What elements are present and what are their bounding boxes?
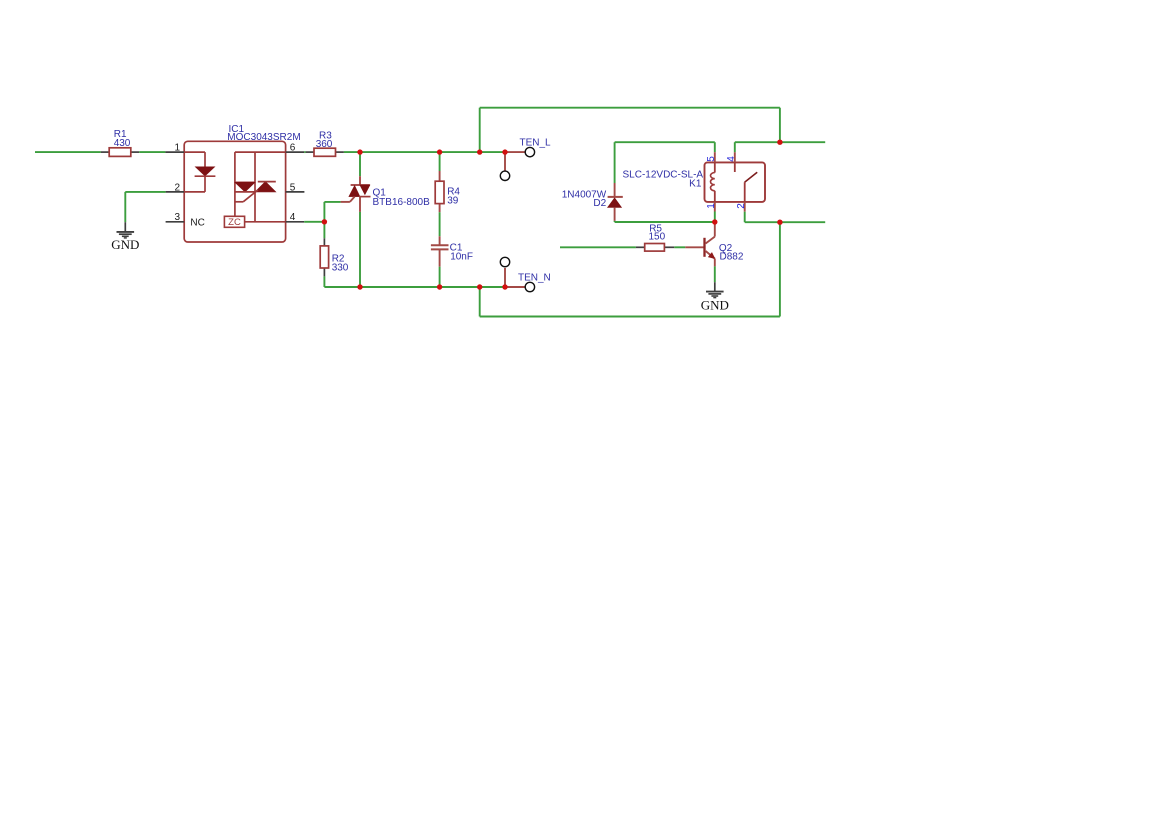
svg-text:K1: K1	[689, 178, 702, 189]
relay pin 1	[706, 202, 717, 212]
net TEN_L terminal	[500, 138, 551, 181]
wire: R4 to C1	[439, 212, 441, 236]
node junction Q2 collector	[712, 219, 717, 224]
node junction bottom rail riser	[477, 284, 482, 289]
relay pin 2	[736, 202, 747, 212]
ground GND1	[111, 222, 139, 252]
wire: IC1 pin 6 to R3	[304, 151, 305, 153]
IC1 pin 2	[166, 182, 185, 193]
label C1 10nF	[450, 243, 473, 263]
svg-text:2: 2	[174, 182, 180, 193]
resistor R2	[320, 238, 328, 276]
IC1 internal LED diode	[184, 152, 215, 192]
wire: Q1 to bottom rail	[359, 212, 361, 287]
wire: relay pin1 to collector junction	[714, 212, 716, 223]
svg-text:330: 330	[332, 262, 349, 273]
wire: top rail R3 to TEN_L	[344, 151, 505, 153]
IC1 pin 6	[286, 143, 305, 154]
svg-text:4: 4	[726, 156, 737, 162]
diode D2	[608, 183, 623, 221]
wire: Q2 emitter to ground	[714, 266, 716, 282]
node junction at R4 top	[437, 149, 442, 154]
triac Q1	[341, 176, 371, 212]
IC1 pin 1	[165, 143, 184, 154]
label Q1 BTB16-800B	[373, 188, 431, 208]
svg-text:TEN_L: TEN_L	[520, 138, 552, 149]
wire: C1 to bottom rail	[439, 267, 441, 287]
relay K1 coil	[710, 162, 714, 202]
wire: relay pin4 to top-right net	[735, 142, 825, 152]
svg-text:6: 6	[290, 143, 296, 154]
transistor Q2	[685, 224, 715, 267]
relay K1 body	[705, 162, 766, 202]
svg-text:GND: GND	[701, 297, 729, 312]
label Q2 D882	[719, 243, 744, 263]
svg-text:2: 2	[736, 203, 747, 209]
node junction C1 bottom	[437, 284, 442, 289]
label D2 1N4007W	[562, 189, 607, 209]
IC1 internal photo-triac	[235, 152, 286, 222]
node junction at TEN_L stub	[502, 149, 507, 154]
svg-text:TEN_N: TEN_N	[518, 273, 551, 284]
node junction bottom-right	[777, 220, 782, 225]
svg-text:430: 430	[114, 138, 131, 149]
wire: R5 to Q2 base	[674, 246, 685, 248]
node junction TEN_N stub	[502, 284, 507, 289]
svg-text:39: 39	[447, 195, 459, 206]
label IC1 MOC3043SR2M	[227, 124, 300, 143]
svg-text:4: 4	[290, 212, 296, 223]
wire: IC1 pin 4 to gate junction	[304, 221, 324, 223]
svg-text:150: 150	[649, 232, 666, 243]
svg-text:ZC: ZC	[228, 217, 241, 228]
wire: base drive input	[560, 246, 636, 248]
wire: D2 top / relay pin5 net	[615, 142, 715, 183]
svg-text:5: 5	[290, 182, 296, 193]
svg-text:D882: D882	[720, 251, 744, 262]
label R1 430	[114, 129, 131, 149]
svg-text:D2: D2	[593, 198, 606, 209]
label K1 SLC-12VDC-SL-A	[623, 169, 704, 189]
svg-text:GND: GND	[111, 237, 139, 252]
wire: IC1 pin 2 to ground	[125, 192, 165, 222]
optocoupler IC1 body	[184, 141, 285, 242]
node junction at Q1 top	[357, 149, 362, 154]
relay K1 contact	[735, 162, 757, 202]
ground GND2	[701, 282, 729, 312]
label R5 150	[649, 224, 666, 243]
label R4 39	[447, 186, 460, 206]
wire: top rail riser and top link	[480, 108, 780, 152]
wire: D2 bottom to collector junction	[615, 221, 715, 222]
IC1 zero-cross ZC box	[224, 216, 285, 228]
wire: R1 to IC1 pin 1	[139, 151, 165, 153]
resistor R4	[435, 171, 444, 212]
relay pin 4	[726, 152, 737, 162]
svg-text:1: 1	[174, 143, 180, 154]
capacitor C1	[431, 236, 449, 266]
resistor R1	[101, 148, 139, 157]
wire: R2 to bottom rail	[323, 276, 325, 287]
node junction top rail riser	[477, 149, 482, 154]
svg-text:10nF: 10nF	[450, 252, 473, 263]
node junction pin4/R2/gate	[322, 219, 327, 224]
IC1 pin 3 NC	[166, 212, 205, 228]
resistor R5	[636, 244, 674, 252]
wire: top rail to R4	[439, 152, 441, 171]
wire: bottom rail	[324, 286, 505, 288]
relay pin 5	[706, 152, 717, 162]
wire: junction down to Q1	[359, 152, 361, 176]
svg-text:5: 5	[706, 156, 717, 162]
svg-text:BTB16-800B: BTB16-800B	[373, 197, 431, 208]
wire: input feed to R1	[35, 151, 101, 153]
wire: bottom rail riser and bottom link	[480, 222, 780, 316]
net TEN_N terminal	[500, 257, 550, 291]
node junction top-right	[777, 140, 782, 145]
label R3 360	[316, 131, 333, 150]
IC1 pin 4	[286, 212, 305, 223]
IC1 pin 5	[286, 182, 305, 193]
svg-text:NC: NC	[190, 217, 204, 228]
wire: junction up and right to Q1 gate	[324, 202, 340, 222]
svg-text:MOC3043SR2M: MOC3043SR2M	[227, 132, 300, 143]
label R2 330	[332, 253, 349, 273]
wire: junction down to R2	[323, 222, 325, 239]
svg-text:360: 360	[316, 139, 333, 150]
svg-text:3: 3	[174, 212, 180, 223]
wire: relay pin2 to bottom-right net	[745, 212, 826, 223]
svg-text:1: 1	[706, 203, 717, 209]
node junction Q1 bottom	[357, 284, 362, 289]
resistor R3	[306, 148, 344, 156]
